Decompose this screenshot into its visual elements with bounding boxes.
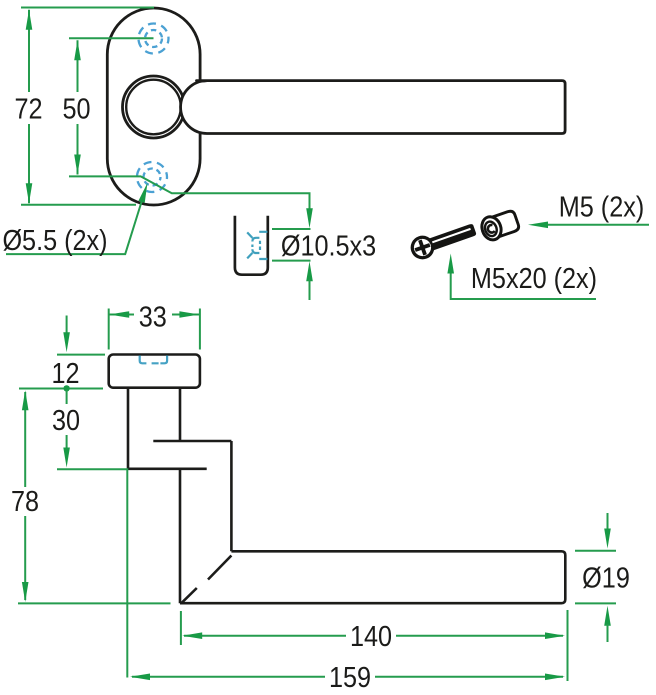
bush hole dashed bobbin (detail) bbox=[247, 232, 267, 259]
bush cup (detail drawing) bbox=[235, 216, 268, 275]
dim 159 line bbox=[132, 676, 563, 678]
dim 140 line bbox=[184, 635, 563, 637]
dim 72 line bbox=[28, 10, 30, 204]
side view grip outline bbox=[180, 551, 565, 603]
lever bar (top view) bbox=[181, 81, 566, 134]
side view shaft left edge bbox=[179, 469, 182, 603]
svg-text:M5 (2x): M5 (2x) bbox=[559, 190, 644, 223]
dim 10.5 extension bottom bbox=[272, 260, 311, 262]
side view crank lower silhouette bbox=[128, 467, 207, 470]
dim 72 arrow down bbox=[26, 183, 33, 203]
screw hole bottom: inner dashed circle bbox=[144, 169, 161, 186]
leader 5.5 arrow bbox=[138, 182, 150, 203]
leader from hole to bush detail bbox=[69, 176, 310, 210]
dim 33 extension right bbox=[199, 309, 201, 350]
dim 10.5 arrow up bbox=[306, 261, 313, 281]
svg-text:30: 30 bbox=[52, 403, 80, 436]
dim 12 stem bbox=[66, 316, 68, 335]
dim 19 extension top bbox=[575, 550, 616, 552]
side view shaft right edge bbox=[230, 441, 233, 551]
dim 78 arrow down bbox=[22, 582, 29, 602]
side view spindle hole dashed bracket bbox=[140, 356, 167, 364]
svg-text:M5x20 (2x): M5x20 (2x) bbox=[471, 261, 597, 294]
dim 72 arrow up bbox=[26, 10, 33, 30]
dim 33 line bbox=[109, 314, 200, 316]
neck collar inner circle (top view) bbox=[126, 80, 181, 135]
dim 30 arrow down bbox=[63, 448, 70, 468]
svg-text:Ø10.5x3: Ø10.5x3 bbox=[281, 229, 376, 262]
dim 50 line bbox=[77, 40, 79, 174]
dim 140 extension left bbox=[180, 611, 182, 645]
dim 50 extension line top bbox=[69, 37, 154, 39]
sleeve nut M5 bbox=[479, 209, 521, 243]
svg-text:50: 50 bbox=[62, 92, 90, 125]
dim 159 arrow left bbox=[130, 674, 150, 681]
dim 10.5 extension top bbox=[272, 228, 311, 230]
svg-text:140: 140 bbox=[350, 619, 392, 652]
dim 33 arrow left bbox=[109, 311, 129, 318]
dim 19 arrow down bbox=[604, 529, 611, 549]
dim 78 line bbox=[24, 392, 26, 600]
screw hole top: inner dashed circle bbox=[145, 30, 162, 47]
svg-text:33: 33 bbox=[139, 300, 167, 333]
screw hole bottom: outer dashed circle bbox=[137, 162, 167, 192]
leader M5 arrow left bbox=[528, 222, 548, 229]
svg-text:159: 159 bbox=[329, 660, 371, 693]
leader M5x20 arrow up bbox=[447, 254, 454, 274]
leader 5.5 underline bbox=[6, 197, 143, 255]
dim 140 arrow left bbox=[182, 632, 202, 639]
dim 140/159 extension right bbox=[567, 610, 569, 681]
side view neck right edge bbox=[179, 388, 182, 441]
dim 30 stem upper bbox=[66, 390, 68, 404]
dim 10.5 lower stem bbox=[309, 280, 311, 301]
side view bend miter upper segment bbox=[208, 556, 231, 580]
dim 50 arrow up bbox=[74, 40, 81, 60]
dim 19 extension bottom bbox=[575, 602, 616, 604]
svg-text:12: 12 bbox=[51, 356, 79, 389]
neck collar outer circle (top view) bbox=[123, 76, 185, 138]
grip bottom extension left bbox=[18, 602, 171, 604]
dim 140 arrow right bbox=[545, 632, 565, 639]
leader M5x20 line bbox=[451, 272, 596, 300]
dim 50 arrow down bbox=[74, 155, 81, 175]
svg-text:72: 72 bbox=[14, 92, 42, 125]
side view crank upper silhouette bbox=[153, 440, 231, 443]
screw hole top: outer dashed circle bbox=[139, 24, 169, 54]
dim 19 arrow up bbox=[604, 606, 611, 626]
side view rosette bbox=[109, 355, 200, 388]
svg-text:Ø5.5 (2x): Ø5.5 (2x) bbox=[2, 223, 107, 256]
dim 19 lower stem bbox=[607, 624, 609, 642]
rosette top extension bbox=[57, 354, 105, 356]
side view bend miter lower segment bbox=[182, 588, 197, 603]
side view neck left edge bbox=[127, 388, 130, 469]
dim 10.5 arrow down bbox=[306, 208, 313, 228]
leader M5 line bbox=[546, 224, 649, 226]
dim 72 extension line top bbox=[21, 7, 154, 9]
svg-text:Ø19: Ø19 bbox=[582, 561, 630, 594]
rosette oval (top view) bbox=[107, 8, 200, 205]
dim 78 arrow up bbox=[22, 390, 29, 410]
neck bottom extension + 159 left extension bbox=[57, 469, 127, 677]
screw M5x20 bbox=[410, 220, 479, 261]
dim 33 arrow right bbox=[179, 311, 199, 318]
dim 30 stem lower bbox=[66, 435, 68, 449]
svg-text:78: 78 bbox=[11, 484, 39, 517]
dim 19 upper stem bbox=[607, 513, 609, 530]
dim 33 extension left bbox=[108, 309, 110, 350]
dim 72 extension line bottom bbox=[21, 204, 136, 206]
rosette bottom extension bbox=[19, 388, 103, 390]
dim 12 arrow down bbox=[63, 332, 70, 352]
dim junction dot bbox=[63, 385, 69, 391]
dim 159 arrow right bbox=[545, 674, 565, 681]
